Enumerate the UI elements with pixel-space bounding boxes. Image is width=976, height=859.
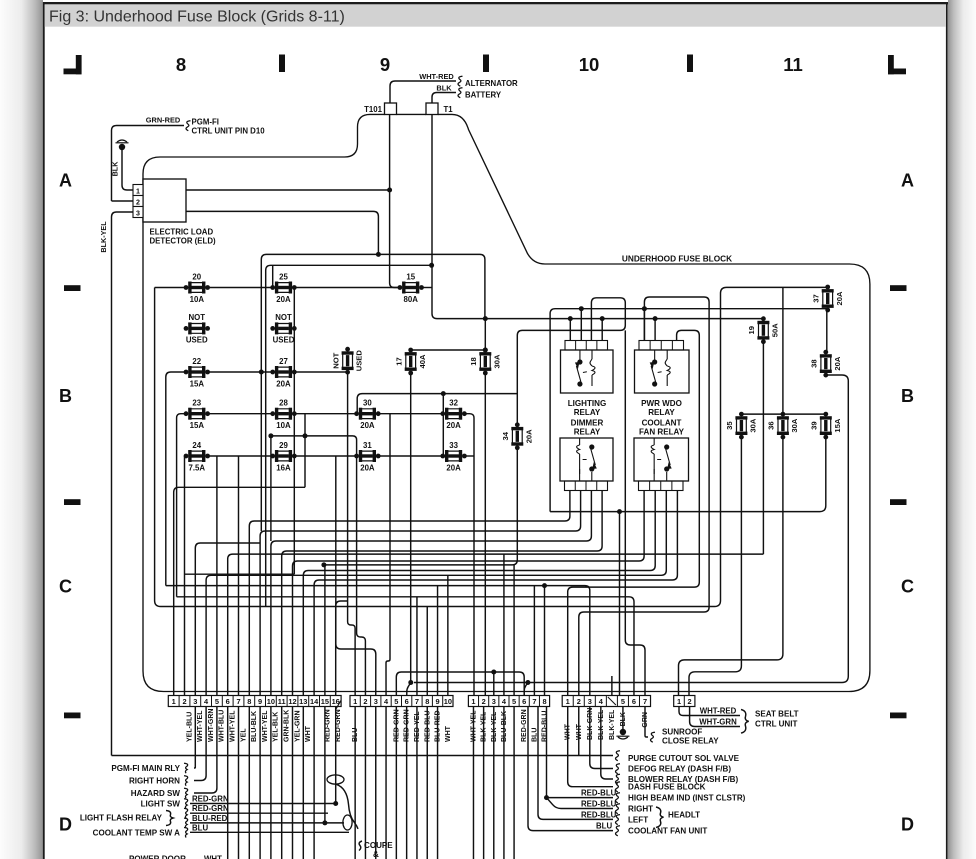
node bus A pwr col1	[642, 306, 647, 311]
svg-text:2: 2	[182, 697, 186, 706]
wire BLK-YEL from ELD pin 3 down left side	[112, 212, 134, 756]
wire bus A (y=308.7)	[550, 309, 828, 512]
svg-text:NOT: NOT	[275, 313, 292, 322]
svg-text:DIMMER: DIMMER	[571, 419, 604, 428]
svg-text:11: 11	[278, 697, 286, 706]
svg-text:CLOSE RELAY: CLOSE RELAY	[662, 737, 719, 746]
svg-text:RED-GRN: RED-GRN	[521, 709, 528, 742]
svg-text:RED-BLU: RED-BLU	[581, 789, 617, 798]
wire strip4 BLK cell drop	[622, 707, 624, 730]
svg-text:6: 6	[405, 697, 409, 706]
wire strip2 c10 riser	[447, 575, 449, 695]
wire strip3 c1 drop to page edge	[472, 707, 474, 859]
wire strip1 c6 riser to fuse 19	[228, 554, 764, 695]
node strip3 c8 drop	[542, 583, 547, 588]
svg-text:WHT: WHT	[305, 725, 312, 742]
svg-text:RED-BLU: RED-BLU	[581, 800, 617, 809]
wire ELD output 2 to bus	[186, 211, 378, 254]
svg-text:19: 19	[747, 326, 756, 334]
svg-text:25: 25	[279, 272, 288, 281]
svg-text:1: 1	[136, 187, 140, 195]
node ELD-T101 junction	[387, 188, 392, 193]
svg-text:B: B	[59, 386, 72, 406]
svg-text:BATTERY: BATTERY	[465, 91, 502, 100]
wire strip3 c4 drop to page edge	[503, 707, 505, 859]
connector strip 4	[562, 696, 650, 707]
wire strip1 c9 drop to page edge	[259, 707, 261, 859]
svg-text:20A: 20A	[360, 421, 375, 430]
svg-text:10: 10	[444, 697, 452, 706]
wire strip2 c9 riser	[437, 586, 439, 696]
wire LEFT headlight row	[538, 707, 613, 820]
svg-text:COOLANT TEMP SW A: COOLANT TEMP SW A	[93, 829, 181, 838]
wire strip2 c1 drop to page edge	[354, 707, 356, 859]
wire strip2 c7 drop to page edge	[416, 707, 418, 859]
brace headlt	[656, 807, 664, 827]
svg-text:7.5A: 7.5A	[189, 463, 206, 472]
wire drop from f39 row to strip4	[619, 512, 621, 696]
ground	[116, 140, 129, 150]
svg-text:D: D	[901, 815, 914, 835]
svg-text:6: 6	[522, 697, 526, 706]
fuse 34 20A	[501, 422, 533, 450]
svg-text:23: 23	[192, 399, 201, 408]
wire strip4 slash cell riser stub	[611, 676, 613, 696]
svg-text:2: 2	[136, 198, 140, 206]
svg-text:3: 3	[193, 697, 197, 706]
wire strip1 c12 riser to coolant col1	[293, 491, 645, 696]
wire outline top between T101 and T1	[397, 113, 427, 115]
svg-text:YEL-BLK: YEL-BLK	[273, 712, 280, 742]
wire fuse 20 to fuse 37 long run	[155, 287, 828, 606]
svg-text:1: 1	[471, 697, 475, 706]
svg-text:2: 2	[577, 697, 581, 706]
wire tap to fuse31 left	[271, 436, 357, 456]
wire drop strip3 c6 stub	[524, 683, 528, 696]
svg-text:30A: 30A	[749, 418, 758, 432]
wire COOLANT TEMP SW A BLU row	[190, 831, 349, 833]
svg-text:3: 3	[136, 209, 140, 217]
svg-text:SEAT BELT: SEAT BELT	[755, 710, 799, 719]
svg-text:1: 1	[172, 697, 176, 706]
svg-text:5: 5	[394, 697, 398, 706]
svg-text:RELAY: RELAY	[574, 408, 601, 417]
node bus A lighting col2	[579, 306, 584, 311]
node f39 row junction	[617, 509, 622, 514]
wire strip1 c6 drop to page edge	[227, 707, 229, 859]
wire fuse23 circuit row (y=596.8)	[177, 597, 634, 696]
svg-text:C: C	[59, 577, 72, 597]
wire drop to strip3 c8	[544, 586, 546, 696]
wire strip1 c7 riser	[238, 456, 240, 696]
svg-text:D: D	[59, 815, 72, 835]
grid tick right	[890, 285, 907, 291]
wire coupe/sedan curve	[336, 784, 358, 829]
svg-text:WHT-RED: WHT-RED	[700, 707, 737, 716]
wire fuse 30/32 top feed	[357, 394, 517, 414]
svg-text:T1: T1	[444, 105, 454, 114]
wire RIGHT headlight row	[547, 798, 614, 809]
wire strip1 c15 drop	[324, 707, 326, 823]
svg-text:17: 17	[394, 357, 403, 365]
svg-text:7: 7	[532, 697, 536, 706]
wire strip1 c7 drop to page edge	[238, 707, 240, 859]
fuse 20 10A	[184, 272, 210, 304]
wire fuses 35/36/39 top row	[741, 413, 825, 415]
svg-text:LIGHT FLASH RELAY: LIGHT FLASH RELAY	[80, 814, 163, 823]
svg-text:FAN RELAY: FAN RELAY	[639, 428, 685, 437]
svg-text:11: 11	[783, 54, 803, 75]
svg-text:20A: 20A	[360, 463, 375, 472]
svg-text:16A: 16A	[276, 463, 291, 472]
wire bus 1 (y=254)	[261, 254, 485, 531]
fuse 15 80A	[398, 272, 424, 304]
wire row3 links	[208, 371, 273, 373]
svg-text:8: 8	[542, 697, 546, 706]
svg-text:A: A	[901, 171, 914, 191]
svg-text:20A: 20A	[524, 429, 533, 443]
node bus B fuse18 column	[483, 316, 488, 321]
node c15 join	[321, 562, 326, 567]
svg-text:BLK-YEL: BLK-YEL	[99, 221, 108, 253]
svg-text:27: 27	[279, 357, 288, 366]
node bus B lighting col4	[600, 316, 605, 321]
svg-text:HIGH BEAM IND (INST CLSTR): HIGH BEAM IND (INST CLSTR)	[628, 794, 746, 803]
wire WHT-RED to alternator	[390, 81, 456, 103]
svg-text:COOLANT: COOLANT	[642, 419, 682, 428]
connector strip 5	[674, 696, 695, 707]
svg-text:18: 18	[469, 357, 478, 365]
fuse 36 30A	[767, 412, 799, 440]
node c10 riser join	[268, 433, 273, 438]
svg-text:T101: T101	[364, 105, 383, 114]
svg-text:12: 12	[288, 697, 296, 706]
grid corner mark top-right	[888, 55, 906, 74]
svg-text:RED-BLU: RED-BLU	[542, 711, 549, 743]
connector strip 3	[468, 696, 549, 707]
node strip3 c3 drop	[491, 670, 496, 675]
wire strip1 c5 riser	[216, 456, 218, 696]
svg-text:RIGHT: RIGHT	[628, 805, 653, 814]
wire strip2 c8 riser	[426, 607, 428, 696]
electric load detector box	[143, 179, 186, 222]
wire strip1 c3 drop to PGM-FI MAIN RLY	[194, 707, 195, 769]
svg-text:BLK-YEL: BLK-YEL	[609, 709, 616, 740]
node light sw junction	[333, 801, 338, 806]
wire strip2 c3 drop to page edge	[375, 707, 377, 859]
wire strip1 c16 drop	[335, 707, 337, 804]
svg-text:50A: 50A	[771, 323, 780, 337]
grid corner mark top-left	[64, 55, 82, 74]
svg-text:RED-GRN: RED-GRN	[192, 795, 229, 804]
grid tick left	[64, 285, 81, 291]
wire fuse37-fuse38 link	[826, 310, 828, 353]
wire strip2 c7 riser	[416, 597, 418, 696]
svg-text:9: 9	[435, 697, 439, 706]
svg-text:20A: 20A	[835, 291, 844, 305]
wire fuse 19 bottom to row and weave	[762, 342, 764, 555]
wire fuse36 top feed from fuse37 line	[782, 287, 784, 414]
svg-text:9: 9	[380, 54, 390, 75]
svg-text:ALTERNATOR: ALTERNATOR	[465, 79, 518, 88]
wire strip4 c2 drop to purge row	[578, 707, 580, 756]
fuse 37 20A	[811, 285, 843, 313]
connector strip 2	[350, 696, 453, 707]
wire fuse 23 left drop	[177, 414, 186, 597]
svg-text:32: 32	[449, 399, 458, 408]
wire fuse 35 bottom to strip5 cell2	[689, 437, 741, 696]
svg-text:31: 31	[363, 441, 372, 450]
wire fuse 34 bottom row to c15	[324, 448, 517, 565]
wire row4 right drop to strip3 c1	[464, 414, 474, 696]
connector loop symbol 1	[327, 775, 344, 784]
svg-text:5: 5	[512, 697, 516, 706]
connector T1	[426, 103, 438, 115]
svg-text:15: 15	[406, 272, 415, 281]
svg-text:1: 1	[353, 697, 357, 706]
grid tick left	[64, 499, 81, 505]
node F38-row strip3 c6	[525, 680, 530, 685]
svg-text:USED: USED	[355, 350, 364, 372]
grid tick top	[279, 55, 285, 73]
svg-text:PURGE CUTOUT SOL VALVE: PURGE CUTOUT SOL VALVE	[628, 754, 740, 763]
svg-text:40A: 40A	[418, 354, 427, 368]
svg-text:3: 3	[588, 697, 592, 706]
svg-text:1: 1	[677, 697, 681, 706]
wire fuse 38 bottom to bottom-right run	[414, 375, 848, 683]
wire fuse 36 bottom to strip5 cell1	[679, 437, 783, 696]
svg-text:SUNROOF: SUNROOF	[662, 728, 702, 737]
wire strip1 c4 riser to coolant col3	[206, 491, 666, 696]
wire fuse row 1 (y=287.5)	[155, 287, 400, 289]
wire fuse25 feed stub	[272, 265, 274, 287]
fuse 22 15A	[184, 357, 210, 389]
wire fuse28 tap down	[304, 414, 306, 488]
relay DIMMER RELAY	[560, 438, 613, 491]
svg-text:BLU-BLK: BLU-BLK	[251, 711, 258, 742]
svg-text:YEL-GRN: YEL-GRN	[294, 711, 301, 743]
node on bus 1	[376, 252, 381, 257]
svg-text:2: 2	[482, 697, 486, 706]
svg-text:13: 13	[299, 697, 307, 706]
svg-text:10: 10	[579, 54, 600, 75]
fuse 18 30A	[469, 348, 501, 376]
svg-text:10A: 10A	[190, 295, 205, 304]
wire strip1 c9 riser to dimmer col2	[260, 491, 580, 696]
svg-text:GRN-BLK: GRN-BLK	[284, 710, 291, 742]
svg-text:20A: 20A	[446, 463, 461, 472]
fuse 27 20A	[270, 357, 296, 389]
ELD pin 2	[133, 196, 143, 207]
svg-text:8: 8	[425, 697, 429, 706]
node blu-red junction	[322, 820, 327, 825]
fuse 25 20A	[270, 272, 296, 304]
node bus B lighting col1	[568, 316, 573, 321]
svg-text:PGM-FI MAIN RLY: PGM-FI MAIN RLY	[111, 764, 180, 773]
wire strip3 c4 riser	[503, 554, 505, 695]
svg-text:2: 2	[688, 697, 692, 706]
fuse 17 40A	[394, 348, 426, 376]
wire strip2 c9 drop to page edge	[437, 707, 439, 859]
wire fuse17-fuse18 top link	[411, 349, 486, 351]
svg-text:WHT-BLU: WHT-BLU	[219, 710, 226, 742]
wire row5 tap to strip2 c3	[336, 456, 376, 696]
wire strip5 c1 to seat belt	[679, 707, 740, 716]
wire strip1 c1 riser to fuse28	[174, 487, 305, 695]
svg-text:7: 7	[643, 697, 647, 706]
wire fuse22 circuit row (y=585.6)	[166, 586, 590, 696]
svg-text:5: 5	[621, 697, 625, 706]
grid tick top	[483, 55, 489, 73]
wire fuse 31 left drop to strip2 c2	[357, 456, 366, 696]
svg-text:20A: 20A	[276, 295, 291, 304]
wire strip1 c11 drop to page edge	[281, 707, 283, 859]
wire bus B drop lighting col1	[569, 319, 571, 341]
node T1 column junction	[429, 263, 434, 268]
svg-text:20: 20	[192, 272, 201, 281]
svg-text:RELAY: RELAY	[648, 408, 675, 417]
svg-text:CTRL UNIT PIN D10: CTRL UNIT PIN D10	[192, 127, 266, 136]
wire not-used fuse drop to strip2 c1	[348, 372, 356, 695]
svg-text:WHT-RED: WHT-RED	[419, 72, 454, 81]
svg-text:BLU: BLU	[192, 823, 208, 832]
relay PWR WDO RELAY	[635, 341, 690, 394]
svg-text:PWR WDO: PWR WDO	[641, 399, 682, 408]
wire strip1 c5 drop to HAZARD SW	[194, 707, 217, 794]
svg-text:HAZARD SW: HAZARD SW	[131, 789, 181, 798]
fuse 29 16A	[270, 441, 296, 473]
wire BLK from ground to ELD pin 1	[122, 149, 133, 190]
wire row5 right tap	[464, 455, 474, 457]
wire bus B drop pwr col2	[654, 319, 656, 341]
wire fuse 17 bottom drop	[410, 373, 412, 683]
svg-text:34: 34	[501, 431, 510, 440]
wire strip1 c4 drop to RIGHT HORN	[194, 707, 206, 781]
svg-text:RELAY: RELAY	[574, 428, 601, 437]
svg-text:20A: 20A	[833, 356, 842, 370]
fuse 19 50A	[747, 316, 779, 344]
wire strip2 c4 drop to page edge	[385, 707, 387, 859]
fuse 24 7.5A	[184, 441, 210, 473]
wire strip1 c3 riser	[195, 543, 260, 696]
svg-text:38: 38	[810, 359, 819, 367]
svg-text:36: 36	[767, 421, 776, 429]
svg-text:33: 33	[449, 441, 458, 450]
svg-text:YEL-BLU: YEL-BLU	[186, 712, 193, 742]
svg-text:WHT-YEL: WHT-YEL	[197, 710, 204, 742]
svg-text:WHT: WHT	[445, 725, 452, 742]
wire GRN-RED to PGM-FI	[112, 126, 185, 202]
svg-text:3: 3	[492, 697, 496, 706]
wire strip1 c10 riser to dimmer col3	[271, 491, 592, 696]
wire strip3 c5 riser	[513, 565, 515, 696]
fuse 34 feed from lighting relay bridge	[517, 298, 625, 425]
wire fuse 25 right drop	[293, 288, 295, 575]
wire strip1 c15 riser	[324, 565, 326, 696]
wire fuse 18 bottom drop to strip3	[484, 373, 486, 696]
ELD pin 3	[133, 207, 143, 218]
svg-text:WHT-YEL: WHT-YEL	[262, 710, 269, 742]
wire strip3 c3 drop to page edge	[493, 707, 495, 859]
wire strip2 c5 drop to page edge	[395, 707, 397, 859]
svg-text:39: 39	[810, 421, 819, 429]
svg-text:COUPE: COUPE	[364, 841, 393, 850]
svg-text:PGM-FI: PGM-FI	[192, 118, 219, 127]
wire COOLANT FAN UNIT row	[528, 707, 613, 831]
svg-text:LEFT: LEFT	[628, 815, 648, 824]
wire LIGHT SW RED-GRN row	[190, 803, 336, 805]
svg-text:30A: 30A	[790, 418, 799, 432]
wire strip2 c8 drop to page edge	[426, 707, 428, 859]
svg-text:7: 7	[415, 697, 419, 706]
svg-text:C: C	[901, 577, 914, 597]
wire from ELD pin 2	[112, 200, 134, 202]
svg-text:5: 5	[215, 697, 219, 706]
svg-text:35: 35	[725, 421, 734, 430]
svg-text:YEL: YEL	[240, 728, 247, 742]
wire strip1 c8 drop to page edge	[248, 707, 250, 859]
svg-text:NOT: NOT	[331, 352, 340, 368]
wire T101 column down to fuse 15	[390, 115, 400, 288]
svg-text:B: B	[901, 386, 914, 406]
svg-text:20A: 20A	[276, 379, 291, 388]
wire middle drop to strip4 GRN cell	[625, 330, 645, 695]
fuse 31 20A	[354, 441, 380, 473]
ELD pin 1	[133, 185, 143, 196]
wire light flash BLU-RED row	[190, 822, 344, 824]
wire fuse 15 right link	[422, 287, 433, 289]
svg-text:14: 14	[310, 697, 319, 706]
connector T101	[385, 103, 397, 115]
wire strip2 c6 drop to page edge	[406, 707, 408, 859]
wire bus 2 (y=265)	[266, 265, 432, 606]
relay COOLANT FAN RELAY	[634, 438, 689, 491]
svg-text:22: 22	[192, 357, 201, 366]
svg-text:6: 6	[226, 697, 230, 706]
wire row 4 links	[208, 413, 273, 415]
wire strip5 c2 to seat belt	[690, 707, 740, 727]
grid tick top	[687, 55, 693, 73]
wire strip1 c16 riser	[336, 601, 348, 696]
svg-text:RIGHT HORN: RIGHT HORN	[129, 777, 180, 786]
svg-text:ELECTRIC LOAD: ELECTRIC LOAD	[150, 228, 214, 237]
node F38-row strip2 c6	[408, 680, 413, 685]
svg-text:UNDERHOOD FUSE BLOCK: UNDERHOOD FUSE BLOCK	[622, 255, 732, 264]
fuse 33 20A	[440, 441, 466, 473]
svg-text:30A: 30A	[492, 354, 501, 368]
svg-text:2: 2	[363, 697, 367, 706]
svg-text:28: 28	[279, 399, 288, 408]
wire strip1 c8 riser to dimmer col1	[249, 491, 570, 696]
wire strip3 c7 riser	[533, 586, 535, 696]
wire strip3 c8 drop to HIGH BEAM	[546, 707, 548, 798]
svg-text:POWER DOOR: POWER DOOR	[129, 855, 186, 859]
node line1 drop on row3	[259, 370, 264, 375]
wire light flash RED-GRN row	[190, 812, 328, 814]
wire f32 left drop to fuse 33	[442, 394, 444, 456]
svg-text:Fig 3: Underhood Fuse Block (G: Fig 3: Underhood Fuse Block (Grids 8-11)	[49, 9, 345, 26]
relay LIGHTING RELAY	[561, 341, 614, 394]
wire strip3 c5 drop to page edge	[513, 707, 515, 859]
wire fuse 30 right drop to strip2 c4	[386, 414, 390, 696]
fuse 28 10A	[270, 399, 296, 431]
wire strip2 c2 drop to page edge	[364, 707, 366, 859]
fuse 39 15A	[810, 412, 842, 440]
svg-text:BLU: BLU	[596, 822, 612, 831]
brace light flash relay	[166, 811, 173, 826]
wire pwr col1 bridge to strip4 c2	[579, 297, 709, 696]
svg-text:BLK: BLK	[436, 84, 452, 93]
